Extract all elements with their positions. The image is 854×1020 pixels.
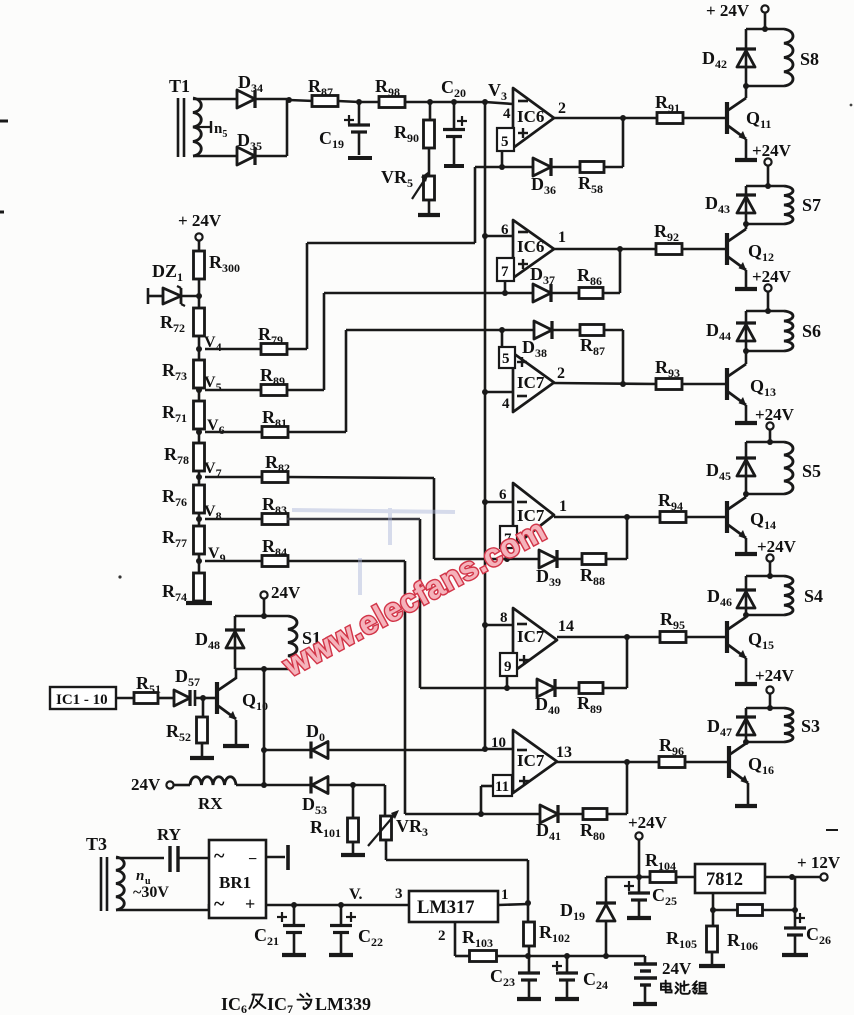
svg-text:S6: S6: [802, 321, 821, 341]
svg-text:IC6: IC6: [517, 237, 544, 256]
scan smudge artifacts: [292, 508, 455, 595]
wire C19 node to R98: [359, 101, 379, 104]
pin5 stub up to feedback node: [501, 330, 504, 347]
svg-text:3: 3: [395, 886, 403, 902]
wire R91 to Q11 base: [683, 117, 727, 120]
svg-text:1: 1: [558, 229, 566, 246]
wire R83 reference to plus input row5: [420, 687, 537, 690]
pin7 stub to feedback node: [504, 281, 507, 293]
svg-text:+24V: +24V: [755, 666, 795, 685]
node V9: [198, 553, 201, 561]
wire R98 to R90 node: [405, 101, 430, 104]
BR1 plus output wire: [266, 904, 409, 907]
feedback wire row2: [551, 292, 579, 295]
node V4: [198, 336, 201, 349]
pin 5 box IC6a: [497, 128, 514, 151]
wire to C20 node: [430, 101, 454, 104]
pin7 stub to feedback node row4: [506, 548, 509, 559]
svg-text:RY: RY: [157, 825, 181, 844]
feedback wire row4: [557, 558, 582, 561]
wire D35 to junction: [255, 155, 287, 158]
pin5 stub to feedback node: [501, 151, 504, 167]
wire R93 to Q13 base: [682, 383, 727, 386]
node V5: [198, 388, 201, 390]
op-amp IC7 second comparator: [513, 483, 554, 547]
svg-text:8: 8: [500, 610, 508, 626]
node junction T1 rectifier: [286, 97, 292, 103]
wire V9 route down to row6: [404, 561, 407, 814]
svg-text:S3: S3: [801, 716, 820, 736]
wire relay S3 to Q16 collector: [745, 742, 748, 744]
wire V3 bus to pin10 row6: [482, 746, 488, 752]
svg-text:5: 5: [501, 134, 509, 150]
wire D0 to pin10 node: [328, 749, 485, 752]
wire R95 to Q15 base: [686, 636, 727, 639]
wire R81 reference to plus input row3: [346, 329, 534, 332]
scan mark left edge: [0, 120, 8, 123]
pin11 stub to feedback node row6: [481, 785, 493, 788]
svg-text:+ 24V: + 24V: [706, 1, 750, 20]
svg-text:S7: S7: [802, 195, 821, 215]
wire R87 to C19 node: [338, 101, 359, 102]
box IC1-10: [50, 687, 116, 709]
op-amp IC6 second comparator: [513, 220, 554, 278]
svg-text:S4: S4: [804, 586, 823, 606]
wire V3 bus to pin4 row3: [482, 389, 488, 395]
node V8: [198, 512, 201, 519]
svg-text:+: +: [245, 894, 255, 914]
Q15 emitter to ground: [745, 658, 748, 682]
7812 ground pin wire: [712, 893, 715, 910]
node V6: [198, 429, 201, 432]
ground R52: [201, 743, 204, 757]
scan speck: [118, 575, 121, 578]
S1 node down to D0/D53 wires: [263, 669, 266, 785]
svg-text:−: −: [248, 851, 257, 868]
svg-text:T3: T3: [86, 834, 107, 854]
svg-text:+24V: +24V: [752, 267, 792, 286]
svg-text:LM339: LM339: [315, 994, 371, 1014]
op-amp IC6 first comparator: [513, 88, 554, 148]
node V7: [198, 471, 201, 477]
op-amp IC7 third comparator: [513, 608, 557, 672]
wire R89 reference to plus input row2: [324, 292, 533, 295]
Q11 emitter to ground: [745, 139, 748, 158]
wire R94 to Q14 base: [686, 516, 727, 519]
wire to R87: [289, 100, 314, 101]
relay S6: [765, 308, 771, 314]
Q14 emitter to ground: [745, 538, 748, 552]
relay S8: [762, 26, 768, 32]
svg-text:24V: 24V: [662, 959, 692, 978]
wire R82 reference to plus input row4: [434, 558, 539, 561]
svg-text:S5: S5: [802, 461, 821, 481]
pin 9 box IC7c: [500, 653, 517, 676]
BR1 minus output bar: [266, 856, 285, 859]
wire relay to Q11 collector: [745, 86, 748, 98]
svg-text:14: 14: [558, 618, 574, 635]
7812 output wire: [765, 876, 820, 879]
svg-text:LM317: LM317: [417, 898, 475, 918]
T3 top lead to RY: [116, 857, 164, 860]
winding tap n5: [196, 126, 211, 128]
wire relay S6 to Q13 collector: [745, 351, 748, 364]
feedback wire row3: [552, 329, 580, 332]
pin 7 box IC6b: [497, 258, 514, 281]
svg-text:IC6: IC6: [517, 107, 544, 126]
svg-text:4: 4: [503, 106, 511, 122]
svg-text:IC7: IC7: [517, 751, 545, 770]
relay S7: [765, 183, 771, 189]
ground R105: [711, 952, 714, 964]
svg-text:+24V: +24V: [628, 813, 668, 832]
wire V3 bus to pin6: [482, 233, 488, 239]
wire relay S5 to Q14 collector: [745, 494, 748, 497]
scan mark right edge: [826, 829, 838, 831]
VR3 bottom to LM317 output: [385, 840, 388, 860]
wire R92 to Q12 base: [682, 248, 727, 251]
svg-text:IC1 - 10: IC1 - 10: [56, 692, 108, 708]
svg-text:2: 2: [438, 928, 446, 944]
wire V3 bus to pin6 row4: [482, 499, 488, 505]
regulator 7812: [695, 864, 765, 893]
relay S4: [767, 573, 773, 579]
ground R101: [352, 842, 355, 854]
wire to VR3: [353, 784, 385, 787]
svg-text:11: 11: [495, 779, 509, 795]
T3 bottom lead to BR1: [116, 909, 209, 912]
pin 7 box IC7b: [500, 526, 517, 548]
svg-text:7: 7: [501, 264, 509, 280]
wire V3 to pin4 IC6a: [485, 102, 513, 104]
svg-text:BR1: BR1: [219, 873, 251, 892]
relay S3: [767, 705, 773, 711]
svg-text:1: 1: [559, 498, 567, 515]
Q13 emitter to ground: [745, 405, 748, 421]
svg-text:~: ~: [214, 845, 225, 867]
wire R79 reference to plus input: [475, 166, 533, 169]
Q16 emitter to ground: [747, 783, 750, 804]
relay S1: [261, 613, 267, 619]
Q10 collector wire to S1: [235, 669, 238, 679]
svg-text:24V: 24V: [271, 583, 301, 602]
op-amp IC7 first comparator: [513, 353, 554, 412]
svg-text:S8: S8: [800, 49, 819, 69]
svg-text:7812: 7812: [706, 870, 743, 890]
wire relay S7 to Q13... Q12 collector: [745, 224, 748, 229]
pin9 stub to feedback node row5: [506, 676, 509, 688]
svg-text:RX: RX: [198, 794, 223, 813]
wire R300 to DZ node: [198, 279, 201, 296]
svg-text:+ 12V: + 12V: [797, 853, 841, 872]
relay S5: [767, 439, 773, 445]
pin 5 box IC7a: [499, 347, 515, 368]
svg-text:6: 6: [499, 487, 507, 503]
op-amp IC7 fourth comparator: [513, 730, 557, 793]
main V3 bus wire vertical: [484, 102, 487, 749]
svg-text:IC7: IC7: [517, 373, 545, 392]
svg-text:13: 13: [556, 744, 572, 761]
svg-text:+24V: +24V: [755, 405, 795, 424]
svg-text:~30V: ~30V: [133, 884, 169, 901]
LM317 output wire: [498, 904, 528, 905]
svg-text:5: 5: [502, 351, 510, 367]
wire R96 to Q16 base: [685, 761, 729, 764]
node +24V C25 R104: [636, 874, 642, 880]
svg-text:+24V: +24V: [752, 141, 792, 160]
Q10 emitter ground: [235, 720, 238, 744]
feedback wire row5: [555, 687, 579, 690]
svg-text:n: n: [136, 868, 144, 884]
ground ladder: [198, 600, 201, 602]
svg-text:T1: T1: [169, 76, 190, 96]
svg-text:V.: V.: [349, 886, 363, 903]
svg-text:9: 9: [504, 659, 512, 675]
ground VR5: [428, 200, 431, 214]
red watermark www.elecfans.com: [276, 512, 552, 684]
bridge BR1: [209, 840, 266, 918]
battery rail wire: [528, 955, 645, 958]
wire C20 to V3 node: [454, 101, 485, 104]
svg-text:2: 2: [558, 100, 566, 117]
svg-text:4: 4: [502, 396, 510, 412]
wire RY to BR1: [178, 857, 209, 860]
svg-text:+ 24V: + 24V: [178, 211, 222, 230]
svg-text:24V: 24V: [131, 775, 161, 794]
Q12 emitter to ground: [745, 270, 748, 287]
svg-text:+24V: +24V: [757, 537, 797, 556]
wire V3 bus to pin8 row5: [482, 622, 488, 628]
wire relay S4 to Q15 collector: [745, 615, 748, 617]
feedback wire row6: [558, 813, 583, 816]
svg-text:1: 1: [501, 887, 509, 903]
svg-text:IC7: IC7: [517, 627, 545, 646]
pin 11 box IC7d: [493, 775, 512, 796]
feedback wire row1: [551, 166, 580, 169]
svg-text:2: 2: [557, 365, 565, 382]
svg-text:~: ~: [214, 893, 225, 915]
